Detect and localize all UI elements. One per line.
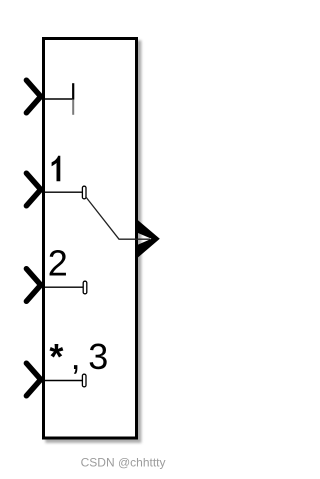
wire port-3 line (45, 380, 82, 382)
input port 4 chevron (26, 363, 40, 396)
svg-text:*,3: *,3 (49, 336, 108, 377)
wire port-1 line (45, 191, 82, 193)
input port 2 chevron (26, 173, 40, 206)
wire port-2 line (45, 286, 83, 288)
contact port 3 (82, 374, 86, 387)
control tick upper (black) (72, 83, 74, 99)
wire control line (45, 98, 72, 100)
contact port 2 (83, 281, 87, 294)
svg-text:2: 2 (48, 243, 68, 284)
block U1 (Multiport Switch body) (44, 39, 137, 439)
input port 1 chevron (control) (26, 80, 40, 113)
output port chevron (138, 220, 160, 257)
contact port 1 (82, 186, 86, 199)
control tick lower (gray) (72, 100, 74, 115)
svg-text:CSDN @chhttty: CSDN @chhttty (81, 456, 166, 470)
input port 3 chevron (26, 269, 40, 302)
label 1 (52, 156, 61, 181)
wire switch diagonal (86, 197, 151, 240)
